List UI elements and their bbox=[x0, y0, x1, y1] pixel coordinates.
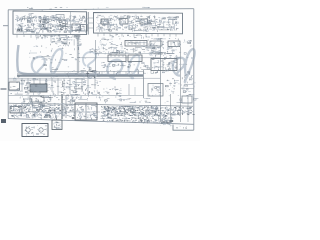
right mid sparse components bbox=[165, 81, 199, 104]
annotation row 2 bottom-right bbox=[102, 108, 191, 109]
annotation row 2b bottom-right bbox=[102, 109, 158, 110]
filter block F1 bbox=[51, 36, 67, 43]
wire horizontal y78.2 bbox=[9, 77, 161, 79]
wire horizontal y112 bbox=[9, 111, 101, 113]
chroma section components bbox=[101, 96, 151, 103]
IC U3 inside M1 bbox=[81, 25, 88, 32]
U7 internal divider bbox=[162, 59, 164, 71]
wire M1-M2 link 2 bbox=[89, 22, 94, 24]
title block box bottom-right bbox=[173, 125, 194, 131]
module box M1 double right edge bbox=[87, 12, 89, 35]
dense section components center bbox=[63, 71, 102, 101]
annotation row 4 bottom-right bbox=[103, 113, 192, 114]
title block text bbox=[176, 126, 184, 128]
deflection section components bbox=[20, 96, 76, 120]
wire horizontal y73.2 bbox=[17, 72, 100, 74]
annotation row 3 bottom-right bbox=[106, 110, 192, 111]
annotation row 1 bottom-left bbox=[11, 104, 74, 107]
filter network components bbox=[51, 35, 82, 47]
wire vertical x143.5 bbox=[143, 70, 145, 98]
tuner module components row 1 bbox=[15, 15, 88, 23]
annotation row 4 bottom-left bbox=[16, 112, 69, 115]
wire horizontal y53.5 bbox=[95, 53, 160, 55]
IC U4 inside M1 bbox=[56, 15, 64, 21]
IC U8 bbox=[9, 82, 20, 90]
wire horizontal y95.5 bbox=[9, 95, 144, 97]
vertical wires left block bbox=[21, 79, 96, 96]
watermark loop 5 bbox=[129, 55, 140, 78]
legend annotations bbox=[25, 125, 47, 136]
wire horizontal y88.5 right bbox=[181, 88, 194, 90]
watermark loop 3 bbox=[83, 52, 96, 68]
wire vertical x95.5 bbox=[95, 40, 97, 76]
component block dark c in M2 bbox=[140, 19, 148, 24]
tuner module scattered parts bbox=[16, 14, 87, 34]
components above bottom border left row1 bbox=[10, 105, 52, 113]
component block dark b in M2 bbox=[120, 19, 128, 25]
dark cluster q3 bbox=[59, 21, 67, 29]
components in auxiliary box bbox=[54, 122, 63, 129]
components inside U12 bbox=[150, 85, 162, 96]
wire vertical x129 bbox=[128, 84, 130, 95]
wire vertical x160.5 bbox=[160, 38, 162, 122]
tuner module components row 2 bbox=[16, 23, 88, 33]
wire horizontal y80 bbox=[9, 79, 63, 81]
dark component blob 3 bbox=[150, 106, 158, 115]
text row below tuner module bbox=[35, 35, 61, 39]
watermark loop 2 bbox=[51, 49, 63, 75]
watermark loop 4 bbox=[107, 60, 122, 79]
annotation row 4b bottom-right bbox=[104, 114, 162, 115]
annotation row 3b bottom-right bbox=[101, 110, 160, 113]
video processing components bbox=[90, 47, 161, 56]
page border right bbox=[193, 9, 195, 131]
ground bus y75.5 (thick) bbox=[17, 74, 143, 76]
power section components left bbox=[9, 77, 64, 97]
legend box bbox=[22, 124, 48, 137]
dense bottom-right components lower bbox=[100, 115, 173, 124]
wire vertical x62 (dark) bbox=[61, 94, 63, 119]
IC U9 bbox=[10, 107, 22, 114]
right column components bbox=[162, 51, 194, 92]
registration tick left middle bbox=[1, 88, 7, 90]
pin ticks in J1 bbox=[128, 42, 144, 46]
components inside U7 bbox=[154, 61, 178, 71]
connector J2 bbox=[168, 41, 180, 47]
wire M1-M2 link 1 bbox=[89, 17, 94, 19]
page border top bbox=[8, 9, 194, 10]
sparse plus marks right-mid bbox=[103, 86, 121, 96]
module box M2 (IF/video) bbox=[94, 13, 183, 34]
wire horizontal y71.5 bbox=[50, 71, 143, 73]
components along slanted border right bbox=[143, 119, 170, 124]
dense bottom-right components upper bbox=[102, 106, 195, 117]
IC U12 bbox=[148, 84, 163, 97]
annotation row 3 bottom-left bbox=[11, 110, 75, 111]
watermark signature stem bbox=[17, 45, 143, 75]
IC U5 bbox=[108, 55, 126, 62]
page border bottom (slanted scan) bbox=[8, 119, 194, 125]
connector J1b bbox=[150, 41, 162, 46]
watermark loop 7 (l with tail) bbox=[185, 49, 195, 82]
dark component blob 2 bbox=[129, 108, 136, 115]
components above U7 bbox=[150, 47, 180, 60]
wire vertical x66 bbox=[65, 95, 67, 118]
annotation row 6 bottom-right bbox=[102, 118, 172, 119]
dark cluster q1 bbox=[17, 24, 24, 32]
module box M1 (tuner) bbox=[13, 11, 87, 35]
U10 internal divider bbox=[85, 103, 87, 120]
wire vertical x170.5 bbox=[170, 94, 172, 122]
IC U13 bbox=[182, 96, 192, 103]
wire vertical x135 bbox=[134, 87, 136, 95]
IC U14 small box bbox=[24, 99, 32, 104]
dark cluster lower-left bbox=[33, 105, 47, 113]
ladder ticks on bus bbox=[102, 72, 138, 76]
annotation row 2 bottom-left bbox=[10, 108, 74, 109]
junction cluster x86-100 bbox=[87, 70, 100, 79]
pin ticks in U5 bbox=[111, 55, 123, 57]
registration mark left lower bbox=[1, 119, 6, 123]
components row below M2 bbox=[99, 38, 192, 48]
dark component blob 1 bbox=[107, 106, 113, 111]
annotation row 5 bottom-right bbox=[102, 114, 173, 117]
connector J1 bbox=[125, 41, 147, 47]
annotation row 1b bottom-right bbox=[101, 105, 161, 108]
registration tick left upper bbox=[3, 25, 9, 27]
interconnect marks mid band bbox=[29, 45, 80, 61]
wire vertical bus x77-x79 bbox=[77, 35, 79, 73]
pin stubs below M2 bbox=[98, 34, 176, 37]
cluster crossing border bottom-right bbox=[160, 122, 172, 127]
pin ticks in J2 bbox=[171, 42, 178, 46]
auxiliary box X1 bbox=[52, 120, 62, 130]
IC U2 inside M1 bbox=[72, 24, 80, 31]
wire horizontal y57.8 bbox=[79, 57, 160, 59]
page border left bbox=[7, 10, 9, 119]
IC U10 (output stage box) bbox=[75, 103, 97, 120]
transistor Q91 in legend bbox=[39, 128, 43, 132]
wire stubs along top border bbox=[27, 7, 150, 11]
IC U6 bbox=[128, 55, 142, 62]
wire divider in M1 bbox=[70, 12, 72, 34]
component block dark a in M2 bbox=[101, 19, 108, 24]
wire horizontal y103.5 bbox=[9, 103, 194, 106]
IF module right components bbox=[158, 16, 178, 30]
svg-text:4: 4 bbox=[185, 126, 187, 130]
IC U7 bbox=[151, 59, 177, 71]
watermark loop 6 (e) bbox=[173, 58, 185, 76]
pin stubs below M1 bbox=[17, 35, 80, 38]
components inside U10 bbox=[77, 104, 98, 120]
transistor Q90 in legend bbox=[26, 128, 30, 132]
marks near right border bbox=[182, 75, 193, 86]
sparse marks center bbox=[43, 58, 91, 70]
wire M1-M2 link 3 bbox=[89, 27, 94, 29]
wire vertical x188 bbox=[187, 95, 189, 122]
wire vertical x180.5 bbox=[180, 47, 182, 122]
annotation row 7 bottom-right bbox=[103, 119, 170, 122]
text row below IF module bbox=[110, 35, 150, 39]
IF module components bbox=[96, 15, 159, 32]
annotation row 5 bottom-left bbox=[11, 115, 74, 116]
dark cluster q2 bbox=[39, 20, 49, 30]
IC U11 below T1 bbox=[30, 96, 44, 102]
components above bottom border left row2 bbox=[11, 112, 51, 118]
watermark loop 1 bbox=[32, 57, 45, 75]
transformer T1 (dark body) bbox=[30, 84, 47, 92]
components mid-right band bbox=[101, 62, 158, 75]
